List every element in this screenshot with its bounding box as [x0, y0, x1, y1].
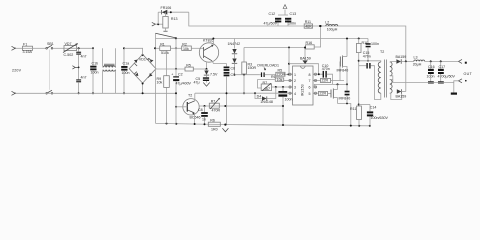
- svg-text:100n/630V: 100n/630V: [371, 116, 389, 120]
- svg-text:100n: 100n: [91, 71, 99, 75]
- varistor VD7: [63, 42, 78, 57]
- resistor R11 on VCC rail: [304, 20, 312, 28]
- snubber R10 line x358.7: [356, 38, 368, 106]
- svg-text:100μH: 100μH: [327, 27, 338, 31]
- resistor R5h inline: [185, 63, 193, 71]
- svg-text:3.15A: 3.15A: [23, 50, 33, 54]
- T1 collector to C6 line: [212, 61, 227, 64]
- svg-text:C13: C13: [290, 12, 297, 16]
- diode VD12 BA159 (aux): [396, 61, 407, 98]
- svg-text:C16: C16: [428, 65, 435, 69]
- capacitor C1b line: [90, 48, 98, 93]
- wire: [78, 82, 80, 93]
- svg-text:22R: 22R: [322, 79, 329, 83]
- svg-text:20μH: 20μH: [413, 62, 422, 66]
- svg-text:10k: 10k: [183, 47, 189, 51]
- output terminal +: [459, 59, 467, 63]
- svg-text:D4: D4: [257, 94, 262, 98]
- svg-text:OVERLOAD1: OVERLOAD1: [257, 64, 279, 68]
- svg-text:VD7: VD7: [65, 42, 72, 46]
- svg-text:10k: 10k: [277, 78, 283, 82]
- output caps C16 C17: [427, 60, 456, 83]
- wire y63.7: [289, 64, 319, 74]
- node: [78, 92, 80, 94]
- node: [319, 25, 321, 27]
- wire x289 pin1 feed: [288, 48, 290, 75]
- switch SB1 second pole: [46, 50, 53, 95]
- resistor R3 vertical: [242, 62, 257, 74]
- svg-text:1N4742: 1N4742: [228, 42, 241, 46]
- node: [78, 47, 80, 49]
- svg-text:1: 1: [294, 73, 296, 77]
- svg-text:IR2153: IR2153: [301, 84, 305, 96]
- wire: [77, 47, 94, 49]
- HV+ riser x155.5: [155, 33, 157, 123]
- svg-text:C14: C14: [370, 106, 377, 110]
- input terminal top: [12, 46, 16, 50]
- choke L1 winding wires: [102, 48, 104, 66]
- timing resistor R6t (pin2): [258, 75, 289, 88]
- R3 line down to COM: [243, 75, 245, 94]
- bridge bottom to neutral rail: [142, 83, 144, 93]
- startup terminal arrow: [152, 22, 163, 26]
- transformer T2: [359, 50, 402, 100]
- svg-text:100n: 100n: [371, 42, 379, 46]
- wire: [53, 47, 64, 49]
- R8 gate resistor (pin7): [317, 78, 344, 82]
- transistor T2 BC546: [175, 93, 201, 124]
- svg-text:R13: R13: [171, 17, 178, 21]
- OVERLOAD label: [257, 64, 279, 71]
- svg-text:F1: F1: [23, 42, 27, 46]
- svg-text:KT835: KT835: [203, 39, 214, 43]
- capacitor C2y: [76, 52, 86, 59]
- svg-text:6: 6: [309, 86, 311, 90]
- C2 line x176: [171, 38, 191, 123]
- output terminal -: [459, 79, 467, 83]
- svg-text:BA159: BA159: [396, 95, 407, 99]
- IC U1 IR2153: [293, 66, 314, 105]
- zener VD8 1N4742: [228, 39, 241, 59]
- inductor L2: [325, 21, 338, 32]
- svg-text:VD1-4: VD1-4: [139, 58, 149, 62]
- svg-text:150R: 150R: [248, 66, 257, 70]
- svg-text:T2: T2: [380, 50, 384, 54]
- resistor R12 vertical box: [157, 51, 170, 124]
- svg-text:22R: 22R: [320, 92, 327, 96]
- diode VD6 FR106: [158, 6, 189, 24]
- svg-text:L2: L2: [325, 21, 329, 25]
- ground arrow bottom: [222, 128, 228, 132]
- resistor R5 220R: [265, 69, 290, 77]
- svg-text:T2: T2: [188, 93, 192, 97]
- svg-text:C7: C7: [231, 73, 236, 77]
- svg-text:R6: R6: [210, 118, 215, 122]
- svg-text:C12: C12: [269, 12, 276, 16]
- svg-text:L3: L3: [414, 56, 418, 60]
- svg-text:4n7: 4n7: [81, 76, 87, 80]
- T1 emitter up to rail: [212, 39, 214, 46]
- resistor R13 startup: [163, 12, 178, 28]
- svg-text:C1b: C1b: [92, 61, 99, 65]
- svg-text:100n: 100n: [288, 22, 296, 26]
- svg-text:47μ: 47μ: [194, 81, 200, 85]
- C15 snubber cap: [359, 51, 379, 100]
- input terminal bottom: [12, 91, 16, 95]
- svg-text:220V: 220V: [12, 69, 22, 73]
- svg-text:2: 2: [294, 79, 296, 83]
- capacitor C11 on mid node: [345, 84, 350, 104]
- svg-text:1n: 1n: [202, 118, 206, 122]
- svg-text:C-502: C-502: [64, 53, 74, 57]
- T1 bottom to DC low wire: [206, 62, 208, 69]
- VCC rail y26: [189, 12, 406, 61]
- DC+ low wire y69: [156, 68, 208, 70]
- svg-text:C17: C17: [439, 65, 446, 69]
- MOSFET VT2 IRF840: [331, 84, 351, 125]
- fuse F1: [23, 42, 33, 54]
- diode VD10 BA159 vertical: [300, 47, 311, 65]
- svg-text:R2: R2: [182, 42, 187, 46]
- resistor R16 row y47.5: [244, 41, 321, 62]
- svg-text:R11: R11: [350, 107, 356, 111]
- capacitors C6 C7 line: [224, 64, 236, 125]
- ground arrow under C5: [203, 83, 209, 87]
- capacitor C3y: [76, 76, 86, 83]
- pin4 COM wire: [195, 92, 289, 94]
- svg-text:470n: 470n: [363, 54, 371, 58]
- resistor R2: [171, 42, 204, 51]
- R9 gate resistor (pin5): [317, 91, 331, 95]
- node bridge ac top: [142, 54, 144, 56]
- svg-text:8: 8: [309, 73, 311, 77]
- svg-text:IRF840: IRF840: [339, 97, 351, 101]
- IC pins left: [289, 73, 297, 96]
- diode VD11 BA159 (out+): [396, 55, 414, 64]
- bridge rectifier VD1-VD4: [129, 54, 156, 83]
- output ground: [451, 82, 457, 94]
- trimmer R7t: [261, 81, 276, 91]
- pot R7b: [209, 98, 220, 113]
- node: [92, 92, 94, 94]
- svg-text:10k: 10k: [157, 81, 163, 85]
- capacitor C8: [198, 106, 208, 124]
- svg-text:1R0: 1R0: [211, 127, 218, 131]
- coupling capacitor (overload): [260, 72, 265, 77]
- svg-text:7: 7: [309, 79, 311, 83]
- svg-text:SB1: SB1: [47, 42, 54, 46]
- C14: [359, 105, 389, 126]
- svg-text:47μ/50V: 47μ/50V: [264, 22, 278, 26]
- svg-text:C6: C6: [231, 66, 236, 70]
- capacitor C5: [194, 77, 210, 85]
- transistor T1 KT835: [199, 39, 218, 63]
- svg-text:R7: R7: [211, 100, 216, 104]
- supply caps C12 C13: [264, 5, 297, 26]
- wire x320.6: [320, 26, 322, 47]
- svg-text:BA159: BA159: [396, 55, 407, 59]
- rail end cap C13b: [366, 39, 379, 62]
- svg-text:R16: R16: [306, 41, 313, 45]
- node: [123, 47, 125, 49]
- svg-text:R5: R5: [186, 63, 191, 67]
- svg-text:100n: 100n: [285, 97, 293, 101]
- wire top to bridge: [124, 48, 143, 54]
- svg-text:3: 3: [294, 86, 296, 90]
- C10 bootstrap cap row pin8: [317, 64, 333, 85]
- svg-text:1N4148: 1N4148: [260, 100, 273, 104]
- wire vertical x78.6: [78, 48, 80, 51]
- svg-text:100n: 100n: [122, 71, 130, 75]
- wire: [78, 55, 80, 80]
- wire neutral rail: [15, 92, 176, 94]
- zener VD5 under T1: [204, 69, 218, 77]
- capacitor C1a line: [121, 48, 129, 93]
- IC pins right: [309, 73, 318, 96]
- svg-text:46R: 46R: [305, 24, 312, 28]
- svg-text:470n: 470n: [322, 67, 330, 71]
- node: [92, 47, 94, 49]
- svg-text:+: +: [171, 73, 173, 77]
- capacitor C9 (Ct): [278, 87, 292, 125]
- R10b box bottom: [350, 106, 361, 126]
- pin3 wire + dots: [275, 86, 289, 88]
- zener VD9: [232, 59, 237, 76]
- svg-text:OUT: OUT: [464, 72, 473, 76]
- node R3 bottom: [243, 74, 245, 76]
- svg-text:4700μ/50V: 4700μ/50V: [438, 75, 456, 79]
- svg-text:C8: C8: [198, 108, 203, 112]
- resistor R6 inline bottom: [208, 118, 220, 131]
- wire: [33, 47, 47, 49]
- ground arrow (earth): [72, 66, 79, 69]
- output bottom rail: [393, 81, 459, 83]
- svg-text:FR106: FR106: [161, 6, 172, 10]
- HV rail y38.5: [156, 38, 369, 40]
- overload contact: [156, 28, 177, 39]
- svg-text:R7: R7: [263, 81, 268, 85]
- svg-text:4n7: 4n7: [81, 55, 87, 59]
- diode D4 pin4 to pin3: [254, 87, 276, 104]
- node: [123, 92, 125, 94]
- svg-text:220R: 220R: [277, 73, 286, 77]
- svg-text:IRF840: IRF840: [337, 69, 349, 73]
- svg-text:4: 4: [294, 92, 296, 96]
- svg-text:5: 5: [309, 92, 311, 96]
- wire input live: [15, 47, 22, 49]
- output inductor L3: [413, 56, 459, 67]
- svg-text:C2: C2: [178, 72, 183, 76]
- svg-text:C1a: C1a: [123, 62, 130, 66]
- freq mod wire y106: [199, 105, 284, 107]
- svg-text:467: 467: [264, 87, 270, 91]
- bottom rail: [156, 123, 371, 125]
- rail nodes: [166, 123, 168, 125]
- svg-text:470R: 470R: [212, 109, 221, 113]
- svg-text:510k: 510k: [161, 51, 169, 55]
- svg-text:R1: R1: [160, 42, 165, 46]
- MOSFET VT1 IRF840: [337, 38, 349, 85]
- svg-text:7.5V: 7.5V: [210, 72, 218, 76]
- resistor R1: [154, 42, 171, 55]
- choke L1: [103, 64, 115, 71]
- mid node wire y84.4: [313, 83, 348, 87]
- svg-text:47μ/400V: 47μ/400V: [176, 81, 192, 85]
- wire y74.7 row: [235, 74, 260, 76]
- switch SB1: [46, 42, 54, 49]
